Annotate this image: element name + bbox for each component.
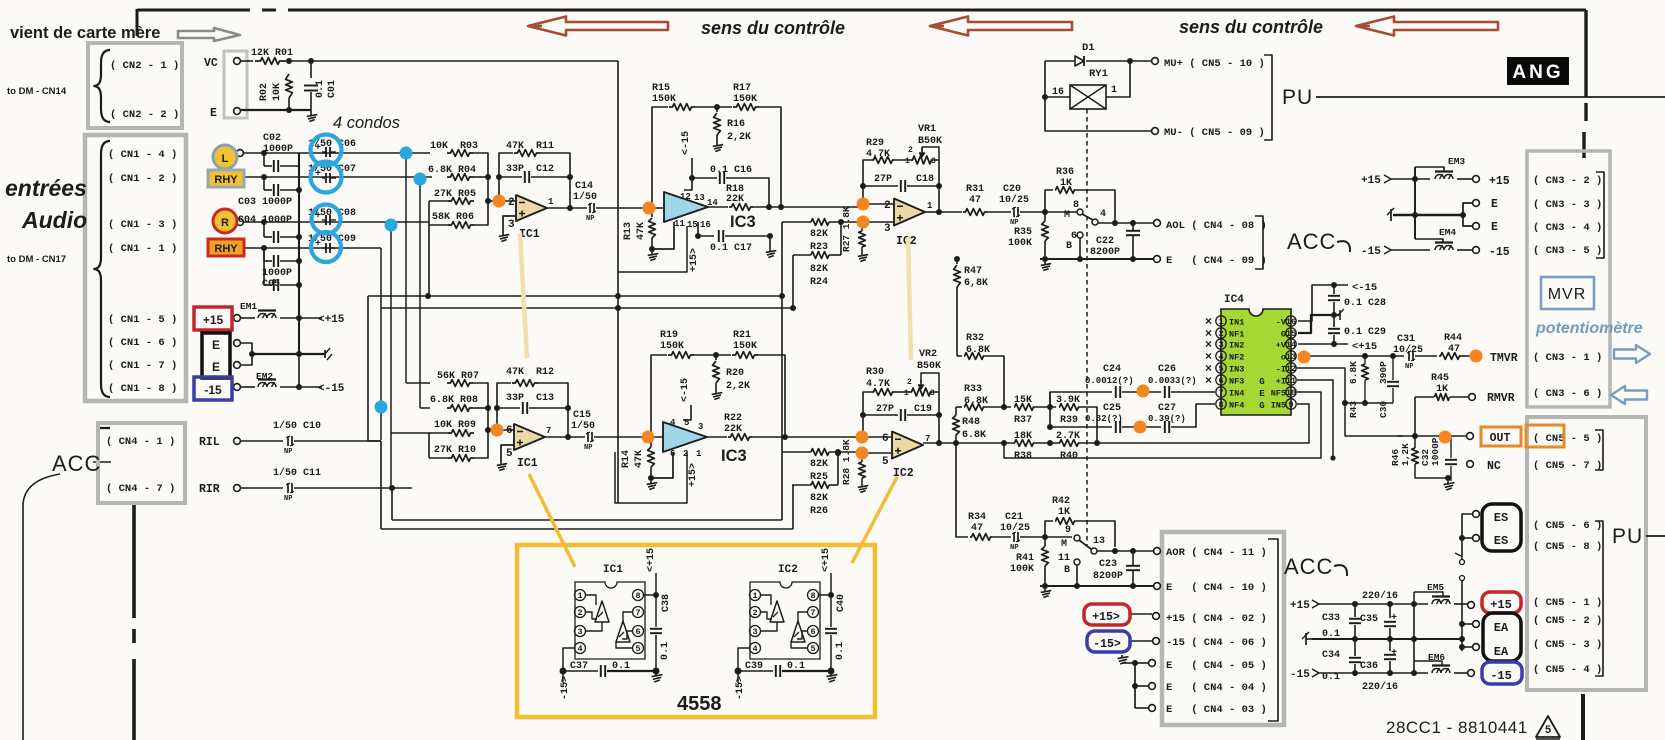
svg-text:to DM - CN17: to DM - CN17 — [7, 254, 66, 265]
svg-text:C36: C36 — [1360, 661, 1378, 672]
svg-text:NP: NP — [586, 215, 594, 223]
svg-text:AOR ( CN4 - 11 ): AOR ( CN4 - 11 ) — [1166, 547, 1267, 559]
svg-text:NP: NP — [1010, 544, 1018, 552]
svg-text:D1: D1 — [1082, 42, 1095, 54]
svg-text:G: G — [1281, 330, 1286, 340]
svg-text:VR2: VR2 — [919, 349, 937, 360]
svg-text:R44: R44 — [1444, 333, 1462, 344]
svg-text:( CN1 - 5 ): ( CN1 - 5 ) — [108, 314, 177, 326]
svg-text:R42: R42 — [1052, 496, 1070, 507]
svg-text:E ( CN4 - 10 ): E ( CN4 - 10 ) — [1166, 582, 1267, 594]
svg-text:( CN5 - 1 ): ( CN5 - 1 ) — [1533, 597, 1602, 609]
svg-text:R16: R16 — [727, 119, 745, 130]
svg-text:C40: C40 — [836, 594, 847, 612]
svg-text:( CN3 - 6 ): ( CN3 - 6 ) — [1533, 388, 1602, 400]
svg-text:G: G — [1259, 401, 1264, 411]
svg-text:( CN5 - 7 ): ( CN5 - 7 ) — [1533, 460, 1602, 472]
svg-text:1K: 1K — [1058, 507, 1070, 518]
svg-text:C18: C18 — [916, 174, 934, 185]
svg-text:E: E — [212, 360, 220, 374]
svg-text:( CN1 - 7 ): ( CN1 - 7 ) — [108, 360, 177, 372]
svg-text:PU: PU — [1282, 86, 1313, 109]
svg-text:C26: C26 — [1158, 364, 1176, 375]
svg-text:R48: R48 — [962, 417, 980, 428]
svg-text:R22: R22 — [724, 413, 742, 424]
svg-text:R35: R35 — [1014, 227, 1032, 238]
svg-text:1000P: 1000P — [263, 144, 293, 155]
svg-text:R20: R20 — [726, 368, 744, 379]
svg-text:( CN5 - 2 ): ( CN5 - 2 ) — [1533, 615, 1602, 627]
svg-text:6: 6 — [635, 627, 640, 637]
svg-text:27K R10: 27K R10 — [434, 445, 476, 456]
svg-text:16: 16 — [700, 220, 711, 230]
svg-text:C14: C14 — [575, 181, 593, 192]
svg-text:8200P: 8200P — [1093, 571, 1123, 582]
svg-text:-I: -I — [1276, 365, 1286, 375]
svg-text:-15: -15 — [1489, 246, 1510, 259]
svg-text:22K: 22K — [724, 424, 742, 435]
svg-text:R13: R13 — [623, 222, 634, 240]
svg-text:13: 13 — [694, 193, 705, 203]
svg-text:150K: 150K — [660, 341, 684, 352]
svg-text:3: 3 — [752, 627, 757, 637]
svg-text:0.1: 0.1 — [660, 642, 671, 660]
svg-text:6: 6 — [506, 425, 513, 437]
svg-text:33P C13: 33P C13 — [506, 393, 554, 404]
svg-text:R14: R14 — [621, 450, 632, 468]
svg-text:<+15: <+15 — [821, 548, 832, 572]
svg-text:1: 1 — [1218, 317, 1223, 327]
svg-text:+15 ( CN4 - 02 ): +15 ( CN4 - 02 ) — [1166, 613, 1267, 625]
svg-text:<-15: <-15 — [681, 131, 692, 155]
svg-text:IC1: IC1 — [603, 564, 623, 576]
svg-text:sens du contrôle: sens du contrôle — [701, 18, 845, 38]
svg-text:entrées: entrées — [5, 175, 87, 201]
svg-text:14: 14 — [1286, 340, 1296, 350]
svg-text:R02: R02 — [259, 83, 270, 101]
svg-text:RHY: RHY — [214, 243, 238, 255]
svg-text:-15: -15 — [1290, 669, 1310, 681]
svg-text:EA: EA — [1494, 621, 1509, 635]
svg-text:-15 ( CN4 - 06 ): -15 ( CN4 - 06 ) — [1166, 637, 1267, 649]
svg-text:R38: R38 — [1014, 451, 1032, 462]
svg-text:-V: -V — [1276, 318, 1287, 328]
svg-text:+15>: +15> — [688, 463, 699, 487]
svg-text:1/50: 1/50 — [571, 420, 595, 432]
svg-text:2,2K: 2,2K — [727, 132, 751, 143]
svg-text:C03 1000P: C03 1000P — [238, 197, 292, 208]
svg-text:R41: R41 — [1016, 553, 1034, 564]
svg-text:( CN3 - 1 ): ( CN3 - 1 ) — [1533, 352, 1602, 364]
svg-text:2: 2 — [1218, 329, 1223, 339]
svg-text:2: 2 — [884, 200, 891, 212]
svg-text:( CN1 - 3 ): ( CN1 - 3 ) — [108, 219, 177, 231]
svg-text:IN2: IN2 — [1229, 341, 1244, 351]
svg-text:OUT: OUT — [1490, 432, 1511, 445]
svg-text:4558: 4558 — [677, 693, 722, 715]
svg-text:12: 12 — [680, 192, 691, 202]
svg-text:82K: 82K — [810, 493, 828, 504]
svg-text:( CN5 - 6 ): ( CN5 - 6 ) — [1533, 520, 1602, 532]
svg-text:5: 5 — [506, 448, 513, 460]
svg-text:×: × — [1205, 373, 1212, 387]
svg-text:( CN1 - 8 ): ( CN1 - 8 ) — [108, 383, 177, 395]
svg-text:7: 7 — [546, 426, 551, 436]
svg-text:VR1: VR1 — [918, 124, 936, 135]
svg-text:NF1: NF1 — [1229, 330, 1244, 340]
svg-text:+15>: +15> — [1092, 611, 1120, 624]
svg-text:R30: R30 — [866, 367, 884, 378]
svg-text:E: E — [1259, 389, 1265, 399]
svg-text:11: 11 — [1286, 376, 1296, 386]
svg-text:8: 8 — [635, 591, 640, 601]
svg-text:27P: 27P — [876, 404, 894, 415]
svg-text:-15: -15 — [1490, 669, 1512, 683]
svg-text:C38: C38 — [661, 594, 672, 612]
svg-text:IC1: IC1 — [517, 457, 538, 470]
svg-text:NC: NC — [1487, 460, 1501, 473]
svg-text:C20: C20 — [1003, 184, 1021, 195]
svg-text:15: 15 — [687, 220, 698, 230]
svg-text:0.1: 0.1 — [787, 661, 805, 672]
svg-text:( CN2 - 2 ): ( CN2 - 2 ) — [110, 109, 179, 121]
svg-text:1000P: 1000P — [1430, 437, 1441, 466]
svg-text:( CN4 - 7 ): ( CN4 - 7 ) — [106, 483, 175, 495]
svg-text:R32: R32 — [966, 333, 984, 344]
svg-text:+15: +15 — [203, 313, 224, 327]
svg-text:R45: R45 — [1431, 373, 1449, 384]
svg-text:R15: R15 — [652, 83, 670, 94]
svg-text:0.1: 0.1 — [315, 80, 326, 98]
svg-text:150K: 150K — [652, 94, 676, 105]
svg-text:2: 2 — [508, 197, 515, 209]
svg-text:L: L — [222, 153, 229, 165]
svg-text:47: 47 — [969, 195, 981, 206]
svg-text:E: E — [1491, 198, 1498, 211]
svg-text:4: 4 — [670, 418, 676, 428]
svg-text:47K: 47K — [636, 222, 647, 240]
svg-text:0.1 C17: 0.1 C17 — [710, 243, 752, 254]
svg-text:5: 5 — [635, 644, 640, 654]
svg-text:R34: R34 — [968, 512, 986, 523]
svg-text:E ( CN4 - 04 ): E ( CN4 - 04 ) — [1166, 682, 1267, 694]
svg-text:IC3: IC3 — [721, 447, 747, 465]
svg-text:<+15: <+15 — [318, 314, 345, 326]
svg-text:0.1: 0.1 — [612, 661, 630, 672]
svg-text:-15: -15 — [204, 383, 222, 397]
svg-text:MU- ( CN5 - 09 ): MU- ( CN5 - 09 ) — [1164, 127, 1265, 139]
svg-text:C15: C15 — [573, 410, 591, 421]
svg-text:+I: +I — [1276, 377, 1286, 387]
svg-text:5: 5 — [810, 644, 815, 654]
svg-text:C19: C19 — [914, 404, 932, 415]
svg-text:C22: C22 — [1096, 236, 1114, 247]
svg-text:ANG: ANG — [1512, 62, 1563, 83]
svg-text:9: 9 — [1065, 525, 1071, 536]
svg-text:( CN5 - 5 ): ( CN5 - 5 ) — [1533, 433, 1602, 445]
svg-text:R47: R47 — [964, 266, 982, 277]
svg-text:R31: R31 — [966, 184, 984, 195]
svg-text:NP: NP — [584, 444, 592, 452]
svg-text:13: 13 — [1286, 352, 1296, 362]
svg-text:6: 6 — [1218, 376, 1223, 386]
svg-text:R39: R39 — [1060, 415, 1078, 426]
svg-text:1: 1 — [577, 591, 582, 601]
svg-text:IN5: IN5 — [1271, 401, 1286, 411]
svg-text:<-15: <-15 — [318, 383, 345, 395]
svg-text:B50K: B50K — [917, 361, 941, 372]
svg-text:7: 7 — [1218, 388, 1223, 398]
svg-text:( CN5 - 4 ): ( CN5 - 4 ) — [1533, 664, 1602, 676]
svg-text:C23: C23 — [1099, 559, 1117, 570]
svg-text:1/50 C11: 1/50 C11 — [273, 467, 321, 479]
svg-text:16: 16 — [1286, 317, 1296, 327]
svg-text:R40: R40 — [1060, 451, 1078, 462]
svg-text:ES: ES — [1494, 534, 1508, 548]
svg-text:E: E — [210, 107, 217, 120]
svg-text:1: 1 — [905, 157, 910, 166]
svg-text:C27: C27 — [1158, 403, 1176, 414]
svg-text:E: E — [212, 338, 220, 352]
svg-text:IC4: IC4 — [1224, 294, 1244, 306]
svg-text:6: 6 — [882, 433, 889, 445]
svg-text:IC2: IC2 — [778, 564, 798, 576]
svg-text:1: 1 — [927, 201, 933, 211]
svg-text:EA: EA — [1494, 645, 1509, 659]
svg-text:o: o — [1281, 353, 1286, 363]
svg-text:27P: 27P — [874, 174, 892, 185]
svg-text:NP: NP — [1405, 363, 1413, 371]
svg-text:82K: 82K — [810, 229, 828, 240]
svg-text:7: 7 — [635, 608, 640, 618]
svg-text:6,8K: 6,8K — [964, 278, 988, 289]
svg-text:-15>: -15> — [560, 676, 571, 700]
svg-text:3: 3 — [1218, 340, 1223, 350]
svg-text:+15: +15 — [1290, 600, 1310, 612]
svg-text:<-15: <-15 — [680, 378, 691, 402]
svg-text:22K: 22K — [726, 194, 744, 205]
svg-text:Audio: Audio — [21, 207, 87, 233]
svg-text:15: 15 — [1286, 329, 1296, 339]
svg-text:390P: 390P — [1378, 361, 1389, 384]
svg-text:ES: ES — [1494, 511, 1508, 525]
svg-text:NF3: NF3 — [1229, 377, 1244, 387]
svg-text:7: 7 — [810, 608, 815, 618]
svg-text:1: 1 — [1111, 85, 1117, 96]
svg-text:5: 5 — [1545, 724, 1551, 736]
svg-text:2: 2 — [752, 608, 757, 618]
svg-text:+15: +15 — [1361, 175, 1381, 187]
svg-text:sens du contrôle: sens du contrôle — [1179, 17, 1323, 37]
svg-text:R37: R37 — [1014, 415, 1032, 426]
svg-text:2: 2 — [577, 608, 582, 618]
svg-text:IN3: IN3 — [1229, 365, 1244, 375]
svg-text:82K: 82K — [810, 459, 828, 470]
svg-text:C31: C31 — [1397, 334, 1415, 345]
svg-text:VC: VC — [204, 57, 218, 70]
svg-text:82K: 82K — [810, 264, 828, 275]
svg-text:R28 1.8K: R28 1.8K — [841, 439, 852, 485]
svg-text:<+15: <+15 — [1352, 341, 1377, 353]
svg-text:1: 1 — [696, 449, 702, 459]
svg-text:3: 3 — [698, 422, 703, 432]
svg-text:C24: C24 — [1103, 364, 1121, 375]
svg-text:6.8K R08: 6.8K R08 — [430, 395, 478, 406]
svg-text:C02: C02 — [263, 133, 281, 144]
svg-text:5: 5 — [1218, 364, 1223, 374]
svg-text:E ( CN4 - 03 ): E ( CN4 - 03 ) — [1166, 704, 1267, 716]
svg-text:1: 1 — [904, 389, 909, 398]
svg-text:5: 5 — [882, 456, 889, 468]
svg-text:C35: C35 — [1360, 614, 1378, 625]
svg-text:100K: 100K — [1010, 564, 1034, 575]
svg-text:( CN3 - 4 ): ( CN3 - 4 ) — [1533, 222, 1602, 234]
svg-text:C04 1000P: C04 1000P — [238, 215, 292, 226]
svg-text:4 condos: 4 condos — [333, 114, 400, 132]
svg-text:220/16: 220/16 — [1362, 681, 1398, 693]
svg-text:3: 3 — [577, 627, 582, 637]
svg-text:RIR: RIR — [199, 483, 220, 496]
svg-text:27K R05: 27K R05 — [434, 189, 476, 200]
svg-text:TMVR: TMVR — [1490, 352, 1518, 365]
svg-text:100K: 100K — [1008, 238, 1032, 249]
svg-text:C21: C21 — [1005, 512, 1023, 523]
svg-text:0.82(?): 0.82(?) — [1085, 414, 1123, 424]
svg-text:B50K: B50K — [918, 136, 942, 147]
svg-text:8200P: 8200P — [1090, 247, 1120, 258]
svg-text:to DM - CN14: to DM - CN14 — [7, 86, 67, 97]
svg-text:47K R12: 47K R12 — [506, 367, 554, 378]
svg-text:IC3: IC3 — [730, 213, 756, 231]
svg-text:<+15: <+15 — [646, 548, 657, 572]
svg-text:4: 4 — [1218, 352, 1223, 362]
svg-text:ACC: ACC — [1284, 554, 1333, 579]
svg-text:47K: 47K — [634, 450, 645, 468]
svg-text:NP: NP — [1010, 219, 1018, 227]
svg-text:4: 4 — [1100, 209, 1106, 220]
svg-text:+: + — [1391, 648, 1397, 659]
svg-text:6.8K: 6.8K — [962, 430, 986, 441]
svg-text:EM4: EM4 — [1439, 227, 1456, 238]
svg-text:RHY: RHY — [214, 174, 238, 186]
svg-text:E ( CN4 - 09 ): E ( CN4 - 09 ) — [1166, 255, 1267, 267]
svg-text:NF4: NF4 — [1229, 401, 1244, 411]
svg-text:C01: C01 — [327, 80, 338, 98]
svg-text:( CN1 - 6 ): ( CN1 - 6 ) — [108, 337, 177, 349]
svg-text:28CC1 - 8810441: 28CC1 - 8810441 — [1386, 718, 1528, 737]
svg-text:4.7K: 4.7K — [866, 379, 890, 390]
svg-text:12K R01: 12K R01 — [251, 48, 293, 59]
svg-text:R21: R21 — [733, 330, 751, 341]
svg-text:47K R11: 47K R11 — [506, 141, 554, 152]
svg-text:G: G — [1259, 377, 1264, 387]
svg-text:MU+ ( CN5 - 10 ): MU+ ( CN5 - 10 ) — [1164, 58, 1265, 70]
svg-text:8: 8 — [810, 591, 815, 601]
svg-text:<-15: <-15 — [1352, 282, 1377, 294]
svg-text:B: B — [1066, 241, 1072, 252]
svg-text:0.0012(?): 0.0012(?) — [1085, 376, 1134, 386]
svg-text:( CN1 - 1 ): ( CN1 - 1 ) — [108, 243, 177, 255]
svg-text:+15: +15 — [1489, 175, 1510, 188]
svg-text:R: R — [221, 217, 229, 229]
svg-text:ACC: ACC — [1287, 229, 1336, 254]
svg-text:( CN3 - 3 ): ( CN3 - 3 ) — [1533, 199, 1602, 211]
svg-text:ACC: ACC — [52, 451, 101, 476]
svg-text:RMVR: RMVR — [1487, 392, 1515, 405]
svg-text:( CN3 - 2 ): ( CN3 - 2 ) — [1533, 175, 1602, 187]
svg-text:10: 10 — [1286, 388, 1296, 398]
svg-text:4: 4 — [752, 644, 757, 654]
svg-text:10K R03: 10K R03 — [430, 141, 478, 152]
svg-text:0.39(?): 0.39(?) — [1148, 414, 1186, 424]
svg-text:11: 11 — [674, 219, 685, 229]
svg-text:IN4: IN4 — [1229, 389, 1244, 399]
svg-text:10K: 10K — [272, 83, 283, 101]
svg-text:RY1: RY1 — [1089, 68, 1108, 80]
svg-text:E: E — [1491, 221, 1498, 234]
svg-text:EM3: EM3 — [1448, 156, 1465, 167]
svg-text:0.1 C28: 0.1 C28 — [1344, 298, 1386, 309]
svg-text:+15: +15 — [1490, 598, 1512, 612]
svg-text:1: 1 — [752, 591, 757, 601]
svg-text:M: M — [1064, 210, 1070, 221]
svg-text:R36: R36 — [1056, 167, 1074, 178]
svg-text:( CN4 - 1 ): ( CN4 - 1 ) — [106, 436, 175, 448]
svg-text:R26: R26 — [810, 506, 828, 517]
svg-text:( CN1 - 4 ): ( CN1 - 4 ) — [108, 149, 177, 161]
svg-text:( CN5 - 8 ): ( CN5 - 8 ) — [1533, 541, 1602, 553]
svg-text:13: 13 — [1093, 536, 1105, 547]
svg-text:0.1 C29: 0.1 C29 — [1344, 327, 1386, 338]
svg-text:0.1: 0.1 — [835, 642, 846, 660]
svg-text:C25: C25 — [1103, 403, 1121, 414]
svg-text:3: 3 — [930, 389, 935, 398]
svg-text:B: B — [1064, 565, 1070, 576]
svg-text:-15>: -15> — [735, 676, 746, 700]
svg-text:10/25: 10/25 — [1393, 344, 1423, 356]
svg-text:10/25: 10/25 — [999, 194, 1029, 206]
svg-text:220/16: 220/16 — [1362, 590, 1398, 602]
svg-text:EM1: EM1 — [240, 301, 257, 312]
svg-text:+V: +V — [1276, 341, 1287, 351]
svg-text:3: 3 — [508, 219, 515, 231]
svg-text:4: 4 — [577, 644, 582, 654]
svg-text:C33: C33 — [1322, 613, 1340, 624]
svg-text:1,2K: 1,2K — [1400, 443, 1411, 466]
svg-text:potentiomètre: potentiomètre — [1535, 320, 1643, 337]
svg-text:6: 6 — [810, 627, 815, 637]
svg-text:vient de carte mère: vient de carte mère — [10, 24, 160, 42]
svg-text:11: 11 — [1058, 553, 1070, 564]
svg-text:R33: R33 — [964, 384, 982, 395]
svg-text:NP: NP — [284, 448, 292, 456]
svg-text:2: 2 — [908, 146, 913, 155]
svg-text:0.0033(?): 0.0033(?) — [1148, 376, 1197, 386]
svg-text:2,2K: 2,2K — [726, 381, 750, 392]
svg-text:2: 2 — [907, 378, 912, 387]
svg-text:R19: R19 — [660, 330, 678, 341]
svg-text:R17: R17 — [733, 83, 751, 94]
svg-text:R29: R29 — [866, 138, 884, 149]
svg-text:( CN1 - 2 ): ( CN1 - 2 ) — [108, 173, 177, 185]
svg-text:( CN2 - 1 ): ( CN2 - 1 ) — [110, 60, 179, 72]
svg-text:3: 3 — [884, 223, 891, 235]
svg-text:NF5: NF5 — [1271, 389, 1286, 399]
svg-text:3: 3 — [931, 157, 936, 166]
svg-text:C34: C34 — [1322, 650, 1340, 661]
svg-text:R27 1.8K: R27 1.8K — [841, 206, 852, 252]
svg-text:1/50: 1/50 — [573, 191, 597, 203]
